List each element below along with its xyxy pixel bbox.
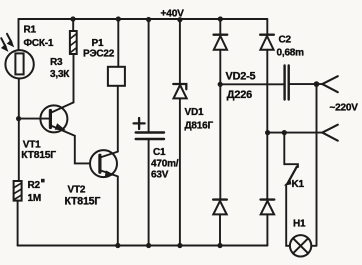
node bridge right midpoint	[265, 130, 270, 135]
svg-text:C1: C1	[153, 147, 166, 158]
wire bridge right column top	[266, 19, 268, 34]
svg-text:VD2-5: VD2-5	[226, 71, 256, 83]
wire bridge left column top	[219, 19, 221, 34]
svg-text:Д816Г: Д816Г	[185, 120, 214, 131]
svg-text:3,3К: 3,3К	[50, 69, 70, 80]
svg-text:Д226: Д226	[227, 89, 252, 101]
wire R3 top to rail	[72, 19, 74, 31]
wire C1 bottom	[148, 139, 150, 246]
svg-text:R3: R3	[50, 57, 63, 68]
svg-text:~220V: ~220V	[330, 103, 359, 114]
light arrows of R1	[1, 34, 11, 47]
svg-text:КТ815Г: КТ815Г	[65, 196, 101, 208]
resistor R3	[70, 31, 77, 54]
svg-text:VD1: VD1	[185, 107, 204, 118]
node VT2 emitter on rail	[115, 243, 120, 248]
svg-text:КТ815Г: КТ815Г	[21, 150, 56, 161]
wire VD1 bottom	[179, 98, 181, 245]
node VD1 bottom on rail	[177, 243, 182, 248]
node P1 top junction	[116, 16, 121, 21]
node bridge left midpoint	[218, 82, 223, 87]
wire P1 top to rail	[117, 19, 119, 67]
terminal lower ~220V arrow	[322, 125, 338, 141]
wire left column bottom (R2 to rail)	[17, 201, 19, 246]
wire VT1 collector to R3	[73, 54, 75, 102]
node C1 bottom on rail	[146, 243, 151, 248]
wire bridge right column middle	[266, 50, 268, 199]
lamp H1	[290, 235, 311, 256]
node upper mains junction	[314, 81, 320, 87]
svg-text:K1: K1	[292, 179, 305, 190]
wire bottom rail	[18, 245, 268, 247]
resistor R2	[14, 181, 22, 201]
node C1 top junction	[146, 17, 151, 22]
svg-text:Н1: Н1	[293, 219, 306, 230]
relay coil P1	[108, 67, 125, 86]
diode VD3 (top right of bridge)	[260, 34, 274, 36]
svg-text:C2: C2	[279, 35, 292, 46]
svg-text:R1: R1	[24, 25, 37, 36]
svg-text:РЭС22: РЭС22	[83, 49, 115, 60]
diode VD5 (bottom right of bridge)	[261, 198, 275, 200]
wire K1 bottom lead to lamp	[286, 185, 290, 246]
svg-text:VT2: VT2	[68, 185, 86, 196]
node bridge left top junction	[218, 16, 223, 21]
capacitor C1	[136, 131, 164, 133]
svg-text:1М: 1М	[28, 193, 42, 204]
wire C1 top	[148, 19, 150, 132]
svg-text:VT1: VT1	[23, 140, 41, 151]
relay contact K1	[284, 164, 298, 167]
node R3 top junction	[70, 16, 75, 21]
zener diode VD1	[173, 84, 186, 89]
wire left column top (rail to R1)	[18, 19, 20, 50]
node VD1 top junction	[177, 17, 182, 22]
wire VT1 emitter to VT2 base	[75, 136, 90, 164]
wire lamp return to upper terminal	[311, 84, 316, 246]
transistor VT2	[90, 150, 117, 177]
wire VT2 emitter to bottom rail	[117, 176, 119, 245]
transistor VT1	[40, 105, 67, 132]
wire bridge midpoint to C2	[220, 83, 283, 85]
svg-text:R2: R2	[28, 180, 41, 191]
node bridge left bottom on rail	[217, 243, 222, 248]
terminal upper ~220V arrow	[322, 76, 338, 92]
svg-text:63V: 63V	[151, 170, 169, 181]
wire bridge left column middle	[219, 50, 221, 199]
wire VT2 collector to relay coil	[117, 86, 119, 152]
diode VD2 (top left of bridge)	[214, 34, 228, 36]
svg-text:ФСК-1: ФСК-1	[24, 38, 54, 49]
svg-text:Р1: Р1	[92, 38, 104, 49]
node VT1 base junction	[16, 116, 21, 121]
wire left column middle (R1 to R2)	[18, 79, 20, 182]
wire C2 to upper mains terminal	[290, 83, 323, 85]
resistor R1 photoresistor circle	[5, 50, 33, 78]
svg-text:470m/: 470m/	[151, 159, 179, 170]
capacitor C2	[283, 66, 285, 100]
wire K1 top lead	[283, 133, 285, 165]
wire VD1 top	[179, 19, 181, 83]
wire bridge left column bottom	[219, 214, 221, 245]
wire top +40V rail	[19, 18, 268, 20]
wire VT1 base	[19, 118, 49, 120]
wire bridge right column bottom	[266, 214, 268, 245]
diode VD4 (bottom left of bridge)	[213, 198, 227, 200]
polarity plus of C1	[134, 118, 145, 129]
wire lower mains line	[268, 132, 323, 134]
svg-text:0,68m: 0,68m	[277, 48, 305, 59]
node K1 branch junction	[282, 130, 287, 135]
